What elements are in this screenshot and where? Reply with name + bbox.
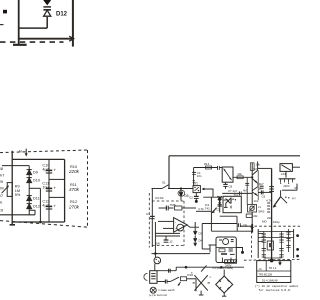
svg-text:D9: D9 bbox=[33, 170, 38, 174]
transistor Tr3 bbox=[282, 189, 297, 191]
svg-text:4k7: 4k7 bbox=[259, 182, 264, 186]
transistor Tr1 box bbox=[193, 186, 200, 193]
inner link rail bbox=[262, 237, 294, 239]
Tr2x vertical bbox=[251, 163, 253, 205]
svg-text:1M: 1M bbox=[0, 185, 4, 190]
cap column 2 bbox=[281, 231, 283, 258]
parallel branch bbox=[246, 177, 248, 204]
wire vertical bus left bbox=[18, 0, 20, 39]
resistor R9 box bbox=[7, 183, 12, 197]
wire right vertical bus bbox=[72, 0, 74, 47]
svg-text:(+) to suit mic: (+) to suit mic bbox=[149, 293, 168, 297]
svg-text:MO: MO bbox=[262, 219, 267, 223]
wire lower-left rail bbox=[0, 214, 35, 216]
arrow below switch bbox=[178, 282, 181, 285]
transformer above diamond bbox=[225, 260, 237, 263]
capacitor C10 bbox=[46, 169, 52, 171]
svg-text:10n: 10n bbox=[197, 174, 202, 178]
bus junction blob bbox=[270, 259, 274, 263]
capacitor bus bbox=[48, 159, 50, 222]
resistor bus right bbox=[64, 159, 66, 222]
transistor 2 arrows bbox=[252, 187, 257, 191]
wire bottom horizontal bbox=[19, 38, 73, 40]
crystal box bbox=[267, 241, 273, 250]
dashed chassis line bbox=[0, 41, 64, 43]
cap column 1 bbox=[263, 231, 265, 258]
link wire 2 bbox=[49, 196, 65, 198]
svg-text:(M): (M) bbox=[156, 241, 161, 245]
svg-text:4µ7: 4µ7 bbox=[42, 167, 48, 171]
resistor 4.7k rail bbox=[196, 210, 211, 212]
series component bbox=[180, 277, 186, 281]
wire into junction blob bbox=[240, 225, 252, 227]
input arrow through enclosure bbox=[25, 149, 27, 154]
svg-text:240V: 240V bbox=[225, 263, 232, 267]
svg-text:D12: D12 bbox=[33, 205, 40, 209]
transistor Tr2 cluster bbox=[218, 196, 229, 205]
wire top supply rail bbox=[169, 155, 300, 157]
wire horizontal mid bbox=[19, 27, 48, 29]
op-amp triangle bbox=[174, 218, 188, 233]
svg-text:C3 R2: C3 R2 bbox=[155, 196, 164, 200]
big box left section bbox=[210, 224, 212, 232]
transistor Tr2 box bbox=[223, 196, 241, 212]
wire box left bbox=[209, 244, 217, 246]
svg-text:4.7k: 4.7k bbox=[198, 207, 204, 211]
wire jog bbox=[29, 210, 35, 215]
svg-text:4k7: 4k7 bbox=[0, 172, 5, 177]
ground stem f2 bbox=[11, 222, 13, 225]
right rail bbox=[293, 229, 295, 258]
svg-text:D1-4 1N4148: D1-4 1N4148 bbox=[262, 278, 278, 282]
svg-text:TR 1,2: TR 1,2 bbox=[269, 266, 277, 270]
diode D11 bbox=[27, 195, 32, 197]
wire mid rail bbox=[203, 196, 222, 198]
rounded component box Tr4 bbox=[216, 237, 236, 263]
link wire 1 bbox=[49, 178, 65, 180]
wire top rail bbox=[12, 158, 64, 160]
emitter drop bbox=[257, 183, 259, 186]
wire input rail b bbox=[168, 188, 193, 190]
resistor R14 bbox=[206, 166, 212, 169]
junction bbox=[39, 221, 42, 224]
wire bottom rail bbox=[12, 221, 64, 223]
main vertical bus bbox=[271, 168, 273, 259]
resistor on Tr2x bbox=[250, 163, 254, 171]
capacitor below box B1 bbox=[225, 182, 227, 184]
svg-text:R14: R14 bbox=[204, 162, 210, 166]
svg-text:470k: 470k bbox=[69, 187, 80, 192]
wire branch vertical bbox=[39, 188, 41, 222]
svg-text:4µ7: 4µ7 bbox=[42, 203, 48, 207]
svg-text:240V: 240V bbox=[283, 184, 289, 188]
wire box B1 to Tr2x bbox=[233, 176, 252, 178]
diode D11 (cut off at top) bbox=[43, 0, 51, 5]
switch S1 blade bbox=[162, 185, 169, 189]
meter bubble bbox=[177, 224, 184, 231]
diode D10 bbox=[27, 177, 32, 179]
preset arrow bbox=[2, 186, 9, 193]
svg-text:Tr2: Tr2 bbox=[234, 193, 239, 197]
svg-text:4k7: 4k7 bbox=[243, 188, 248, 192]
capacitor below bus bbox=[165, 236, 167, 240]
crystal insert box bbox=[154, 264, 156, 271]
capacitor on left column bbox=[150, 215, 155, 217]
wire into bus bbox=[258, 191, 272, 193]
resistor zig right bbox=[267, 202, 270, 204]
svg-text:5%: 5% bbox=[15, 193, 21, 197]
svg-text:10µ: 10µ bbox=[42, 185, 49, 189]
svg-text:M: M bbox=[19, 149, 22, 153]
svg-text:1k: 1k bbox=[0, 200, 2, 205]
wire Tr1 to node bbox=[207, 189, 213, 197]
right node dots bbox=[296, 234, 299, 237]
wire left bus bbox=[11, 151, 13, 222]
wire upper feed bbox=[194, 167, 218, 169]
ground stem bbox=[18, 39, 20, 45]
svg-text:C2: C2 bbox=[189, 196, 193, 200]
wire mic drop bbox=[154, 222, 156, 257]
wire box right terminal bbox=[236, 248, 242, 252]
dashed enclosure bottom bbox=[0, 221, 88, 228]
svg-text:= case earth: = case earth bbox=[158, 288, 175, 292]
lead-out X left bbox=[194, 275, 207, 290]
wire branch right bbox=[29, 187, 40, 189]
svg-text:C8: C8 bbox=[228, 184, 232, 188]
IC pin column bbox=[257, 229, 259, 258]
series cap on mic wire bbox=[168, 269, 170, 273]
svg-text:12: 12 bbox=[169, 239, 173, 243]
resistor on bus bbox=[269, 186, 274, 188]
svg-text:+: + bbox=[54, 168, 57, 173]
collector rise bbox=[257, 161, 259, 170]
left dashed box border right bbox=[183, 201, 185, 246]
left dashed box border left bbox=[148, 193, 150, 248]
wire feed drop bbox=[193, 168, 195, 186]
connector bar bbox=[279, 178, 296, 180]
svg-text:100µ: 100µ bbox=[273, 220, 280, 224]
svg-text:SRS: SRS bbox=[258, 209, 264, 213]
microphone circle bbox=[154, 257, 161, 264]
wire upper mid rail b bbox=[222, 192, 252, 194]
feed arrow into table bbox=[279, 260, 281, 264]
svg-text:for improved S.N.R.: for improved S.N.R. bbox=[259, 288, 292, 292]
svg-text:+: + bbox=[54, 186, 57, 191]
diode chain mid-low bbox=[187, 225, 199, 227]
svg-text:4.7k: 4.7k bbox=[266, 199, 272, 203]
svg-text:C1: C1 bbox=[146, 212, 150, 216]
bus pair bbox=[155, 232, 180, 234]
svg-text:D10: D10 bbox=[33, 179, 40, 183]
node terminal square bbox=[3, 10, 7, 14]
series resistor mid bbox=[175, 206, 182, 210]
ground bar bbox=[13, 44, 27, 46]
svg-text:(*) 10 pF capacitor added: (*) 10 pF capacitor added bbox=[255, 284, 299, 288]
diode D12 bbox=[43, 9, 51, 11]
svg-text:S1: S1 bbox=[162, 181, 166, 185]
junction bbox=[180, 187, 182, 189]
series capacitor mid bbox=[159, 207, 167, 209]
junction blob bbox=[251, 224, 253, 233]
svg-text:TR3 BC108: TR3 BC108 bbox=[258, 273, 272, 277]
svg-text:22k: 22k bbox=[267, 216, 272, 220]
svg-text:D12: D12 bbox=[56, 12, 68, 18]
diode D9 bbox=[27, 169, 32, 171]
cap column 3 bbox=[288, 229, 290, 252]
junction arrow at right bus bbox=[69, 36, 73, 41]
svg-text:10k: 10k bbox=[237, 172, 242, 176]
svg-text:+: + bbox=[54, 204, 57, 209]
connector pins bbox=[280, 179, 282, 183]
wire mic out upper bbox=[157, 270, 176, 272]
wire input rail bbox=[152, 188, 163, 190]
dashed enclosure right bbox=[87, 150, 89, 228]
switch S2 bbox=[170, 277, 179, 281]
svg-text:D11: D11 bbox=[33, 197, 40, 201]
wire 0V rail bbox=[152, 253, 211, 255]
svg-text:(+): (+) bbox=[292, 196, 296, 200]
cap left of bus bbox=[260, 185, 264, 187]
capacitor C2 bbox=[195, 193, 197, 196]
chassis symbol bbox=[150, 287, 156, 293]
wiper arrow bbox=[212, 208, 216, 213]
wire left column bbox=[151, 189, 153, 248]
zener left of Tr2 box bbox=[219, 196, 221, 212]
series capacitor bbox=[217, 166, 219, 170]
svg-text:22k: 22k bbox=[253, 214, 258, 218]
capacitor C4 on feed bbox=[192, 171, 196, 173]
svg-text:R8: R8 bbox=[0, 166, 4, 171]
wire mic out lower bbox=[157, 281, 165, 283]
transistor arrows bbox=[252, 170, 257, 175]
lead-out diamond right bbox=[216, 276, 233, 293]
arrow into Tr1 bbox=[202, 188, 207, 190]
capacitor C12 bbox=[46, 205, 52, 207]
diode D15 vertical bbox=[180, 189, 182, 201]
svg-text:270k: 270k bbox=[68, 204, 80, 209]
wire inverting input bbox=[158, 220, 174, 222]
svg-text:-: - bbox=[175, 220, 177, 224]
diode chain wire bbox=[28, 166, 30, 215]
svg-text:C5: C5 bbox=[217, 207, 221, 211]
pot box cluster bbox=[248, 205, 257, 213]
svg-text:R12: R12 bbox=[70, 199, 77, 204]
wire diode drop bbox=[46, 17, 48, 28]
wire speaker right bbox=[292, 166, 300, 168]
svg-text:R9: R9 bbox=[0, 179, 4, 184]
wire to main bus bbox=[258, 167, 272, 169]
svg-text:Tr2: Tr2 bbox=[253, 167, 257, 171]
capacitor C11 bbox=[46, 187, 52, 189]
svg-text:x1: x1 bbox=[258, 205, 261, 209]
box B1 upper bbox=[222, 167, 233, 182]
wire left drop bbox=[168, 156, 170, 189]
svg-text:c: c bbox=[210, 275, 212, 279]
resistor R13 bbox=[237, 176, 243, 179]
left dashed box border bottom bbox=[152, 245, 184, 247]
series cap on rail b bbox=[238, 191, 240, 195]
wire non-inverting input bbox=[163, 227, 174, 229]
dashed enclosure top bbox=[0, 150, 88, 153]
junction bbox=[251, 176, 253, 178]
vertical node wire bbox=[210, 197, 212, 223]
svg-text:C9: C9 bbox=[0, 207, 4, 212]
wire below Tr2 box bbox=[220, 215, 237, 217]
link wires bbox=[258, 230, 293, 232]
wire left stub bbox=[0, 24, 4, 26]
speaker box LS1 bbox=[280, 164, 292, 172]
svg-text:741: 741 bbox=[205, 206, 210, 210]
svg-text:R7: R7 bbox=[0, 193, 4, 198]
small cap above bus bbox=[238, 223, 240, 227]
svg-text:220k: 220k bbox=[68, 169, 80, 174]
wire speaker down bbox=[285, 171, 287, 177]
resistor 22k box bbox=[246, 214, 252, 217]
svg-text:1C: 1C bbox=[258, 267, 261, 271]
diode D12b bbox=[27, 203, 32, 205]
svg-text:C7: C7 bbox=[228, 189, 232, 193]
left dashed box border top bbox=[152, 200, 184, 202]
wire second rail bbox=[2, 165, 29, 167]
